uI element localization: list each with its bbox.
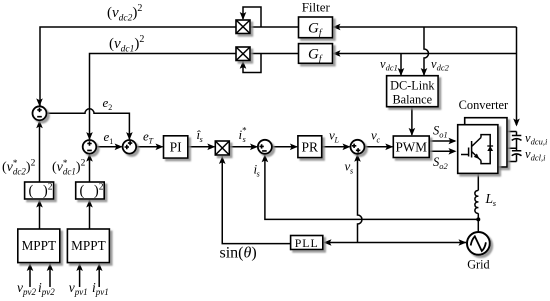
- PWM block: [393, 136, 429, 158]
- squarer block 1: [25, 182, 54, 199]
- svg-text:MPPT: MPPT: [22, 238, 56, 253]
- wire vdc2 tap down to DC-Link with hop over vdc1 wire: [424, 27, 429, 75]
- wire ipv2 input: [49, 264, 51, 288]
- arrowhead vpv1 into MPPT2: [76, 263, 83, 271]
- X cross in multiplier M3: [215, 141, 229, 155]
- summing signs sum3: [125, 141, 133, 149]
- IGBT emitter arrowhead: [474, 154, 480, 160]
- arrowhead DC-Link into PWM: [409, 128, 416, 136]
- PI block: [164, 136, 188, 158]
- wire converter taps to capacitor string: [507, 132, 517, 162]
- arrowhead into sum1 top: [36, 98, 43, 106]
- svg-text:DC-Link: DC-Link: [390, 79, 435, 93]
- wire loop around multiplier M1: [243, 7, 261, 27]
- X cross in multiplier M2: [236, 47, 250, 61]
- wire sum3 to PI: [136, 146, 162, 148]
- arrowhead vpv2 into MPPT1: [27, 263, 34, 271]
- wire sum4 to PR: [272, 146, 297, 148]
- summing signs sum2: [87, 141, 92, 150]
- multiplier M3 box: [215, 141, 229, 155]
- wire vdc1 tap down to DC-Link: [400, 54, 402, 76]
- arrowhead ipv2 into MPPT1: [47, 263, 54, 271]
- svg-text:Filter: Filter: [302, 0, 331, 15]
- arrowhead is into sum4 bottom: [262, 154, 269, 162]
- arrowhead into grid circle: [459, 239, 467, 246]
- capacitor string vertical: [516, 132, 518, 162]
- wire ipv1 input: [98, 264, 100, 288]
- arrowhead loop into M2 bottom: [240, 61, 247, 69]
- capacitor vdcu plates: [512, 136, 522, 141]
- DC-Link Balance block: [387, 76, 439, 107]
- summing signs sum5: [352, 144, 360, 153]
- wire M3 to sum4: [230, 146, 257, 148]
- arrowhead so2 into converter: [449, 148, 457, 155]
- wire vs tap from grid-PLL line up to sum5 with hop: [358, 155, 363, 243]
- wire sense vertical at right down to capacitors: [516, 27, 518, 125]
- wire is feedback from grid node to sum4: [265, 155, 478, 219]
- arrowhead so1 into converter: [449, 138, 457, 145]
- summing junction sum5: [351, 140, 365, 154]
- arrowhead into PWM: [385, 144, 393, 151]
- summing signs sum1: [37, 108, 42, 117]
- filter block Gf1: [299, 17, 333, 38]
- arrowhead into Gf2 right: [333, 50, 341, 57]
- svg-text:PLL: PLL: [295, 236, 319, 250]
- arrowhead vs into sum5 bottom: [354, 154, 361, 162]
- capacitor vdcl plates: [512, 151, 522, 156]
- filter block Gf2: [299, 44, 333, 64]
- arrowhead loop into M1 top: [240, 12, 247, 20]
- wire PWM to converter so2: [430, 150, 456, 152]
- PLL block: [291, 236, 323, 250]
- svg-text:PI: PI: [170, 139, 183, 154]
- arrowhead MPPT1 into squarer1: [36, 200, 43, 208]
- wire PR to sum5: [322, 146, 349, 148]
- arrowhead e2 into sum3 top: [126, 132, 133, 140]
- wire MPPT1 up to squarer1: [39, 200, 41, 229]
- wire PI to multiplier M3: [188, 146, 214, 148]
- inductor Ls coil: [475, 190, 478, 213]
- arrowhead into PLL right: [324, 239, 332, 246]
- svg-text:Grid: Grid: [467, 258, 489, 272]
- arrowhead into sum2 top: [86, 132, 93, 140]
- wire e1 from sum2 to sum3: [97, 146, 122, 148]
- IGBT antiparallel diode: [487, 146, 493, 151]
- summing signs sum4: [259, 144, 266, 151]
- summing junction sum1: [33, 106, 47, 120]
- wire DC-Link to PWM: [411, 107, 413, 135]
- arrowhead ipv1 into MPPT2: [96, 263, 103, 271]
- wire Gf2 input from sense line: [333, 53, 517, 55]
- svg-text:Converter: Converter: [459, 98, 509, 112]
- summing junction sum4: [258, 140, 272, 154]
- svg-text:MPPT: MPPT: [71, 238, 105, 253]
- multiplier M1 box: [236, 20, 250, 34]
- wire grid to PLL: [324, 242, 466, 244]
- squarer block 2: [76, 182, 105, 199]
- summing junction sum3: [123, 140, 137, 154]
- wire e2 from sum1 to sum3 with hop: [47, 109, 130, 139]
- arrowhead into sum2 bottom: [86, 154, 93, 162]
- svg-text:PWM: PWM: [395, 139, 427, 154]
- converter front box: [458, 125, 498, 174]
- arrowhead into PI: [156, 144, 164, 151]
- converter back box: [465, 118, 507, 167]
- wire vpv1 input: [79, 264, 81, 288]
- arrowhead vdc2 into DC-Link: [421, 68, 428, 76]
- IGBT symbol inside converter: [461, 135, 490, 164]
- wire vpv2 input: [29, 264, 31, 288]
- arrowhead sin into M3 bottom: [219, 156, 226, 164]
- wire multiplier1 to Gf1: [250, 26, 298, 28]
- grid sine symbol: [471, 236, 486, 251]
- ARROWS: [27, 12, 520, 271]
- svg-text:sin(θ): sin(θ): [220, 245, 257, 262]
- arrowhead into sum5 left: [343, 144, 351, 151]
- svg-text:PR: PR: [302, 139, 319, 154]
- wire sum5 to PWM: [365, 146, 393, 148]
- wire Ls bottom to grid circle: [477, 213, 479, 232]
- MPPT block 2: [67, 229, 109, 263]
- arrowhead e1 into sum3 left: [115, 144, 123, 151]
- arrowhead into PR: [290, 144, 298, 151]
- wire sin(theta) from PLL to multiplier M3: [222, 156, 290, 244]
- arrowhead into Gf1 right: [333, 24, 341, 31]
- PR block: [298, 136, 322, 158]
- arrowhead into M3: [207, 144, 215, 151]
- wire converter down through Ls to grid: [477, 173, 479, 190]
- arrowhead vdc1 into DC-Link: [398, 68, 405, 76]
- arrowhead sense into capacitor node: [513, 119, 520, 127]
- wire vdc2 squared : top horizontal + left vertical into sum1: [40, 27, 236, 106]
- svg-text:Balance: Balance: [392, 92, 432, 106]
- arrowhead MPPT2 into squarer2: [86, 200, 93, 208]
- grid source circle: [467, 232, 490, 255]
- wire vdc1 ref from squarer box up to sum2: [89, 155, 91, 182]
- summing junction sum2: [83, 140, 97, 154]
- multiplier M2 box: [236, 47, 250, 61]
- arrowhead into sum4 left: [250, 144, 258, 151]
- X cross in multiplier M1: [236, 20, 250, 34]
- wire MPPT2 up to squarer2: [89, 200, 91, 229]
- wire loop around multiplier M2: [243, 54, 261, 73]
- BOXES: [18, 17, 507, 263]
- wire Gf1 input from sense line: [333, 26, 517, 28]
- wire multiplier2 to Gf2: [250, 53, 298, 55]
- MPPT block 1: [18, 229, 60, 263]
- arrowhead into sum1 bottom: [36, 120, 43, 128]
- wire vdc2 ref from squarer box up to sum1: [39, 122, 41, 183]
- node junction at Ls bottom: [476, 217, 480, 221]
- wire PWM to converter so1: [430, 140, 456, 142]
- wire vdc1 squared : second horizontal + vertical into sum2: [90, 54, 237, 140]
